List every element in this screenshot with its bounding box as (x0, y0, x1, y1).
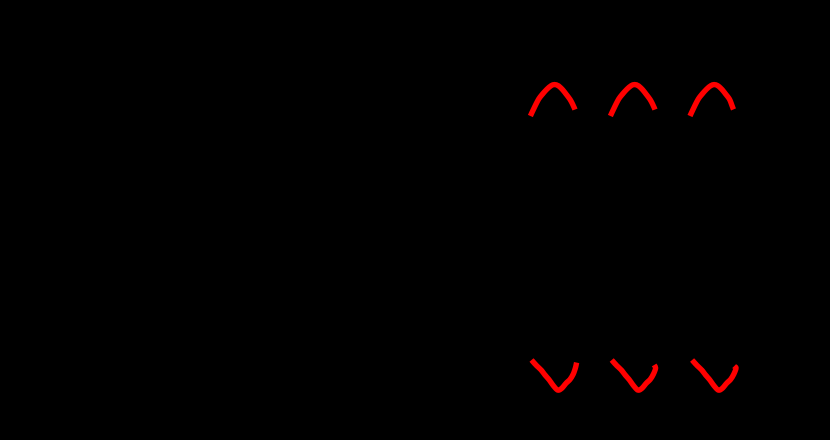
three-phase AC source L3 (62, 302, 98, 338)
sine wave phase 2 (upper plot, black) (560, 81, 705, 145)
three-phase AC source L2 (62, 202, 98, 238)
load resistor R (392, 80, 408, 360)
diode D3 (292, 80, 308, 320)
axis of lower waveform plot (470, 330, 790, 410)
red highlight: negative half-cycle trough, phase 3 (692, 360, 736, 390)
sine wave phase 2 (lower plot, black) (560, 330, 705, 394)
sine wave phase 1 (lower plot, black) (480, 330, 625, 394)
sine wave phase 1 (upper plot, black) (480, 81, 625, 145)
diode D2 (252, 80, 268, 220)
diode D5 (252, 220, 268, 360)
red highlight: positive half-cycle peak, phase 2 (610, 85, 655, 116)
red highlight: positive half-cycle peak, phase 1 (530, 85, 575, 116)
axis of upper waveform plot (470, 60, 790, 145)
red highlight: negative half-cycle trough, phase 1 (532, 360, 577, 390)
wire phase L3 to bridge (98, 319, 300, 321)
wire phase L1 to bridge (98, 119, 220, 121)
diode D4 (212, 120, 228, 360)
wire phase L2 to bridge (98, 219, 260, 221)
node + (positive DC bus) (220, 79, 400, 81)
sine wave phase 3 (upper plot, black) (640, 81, 785, 145)
node - (negative DC bus) (220, 359, 400, 361)
red highlight: negative half-cycle trough, phase 2 (612, 360, 656, 390)
diode D6 (292, 320, 308, 360)
diode D1 (212, 80, 228, 120)
sine wave phase 3 (lower plot, black) (640, 330, 785, 394)
red highlight: positive half-cycle peak, phase 3 (690, 85, 734, 116)
three-phase AC source L1 (62, 102, 98, 138)
